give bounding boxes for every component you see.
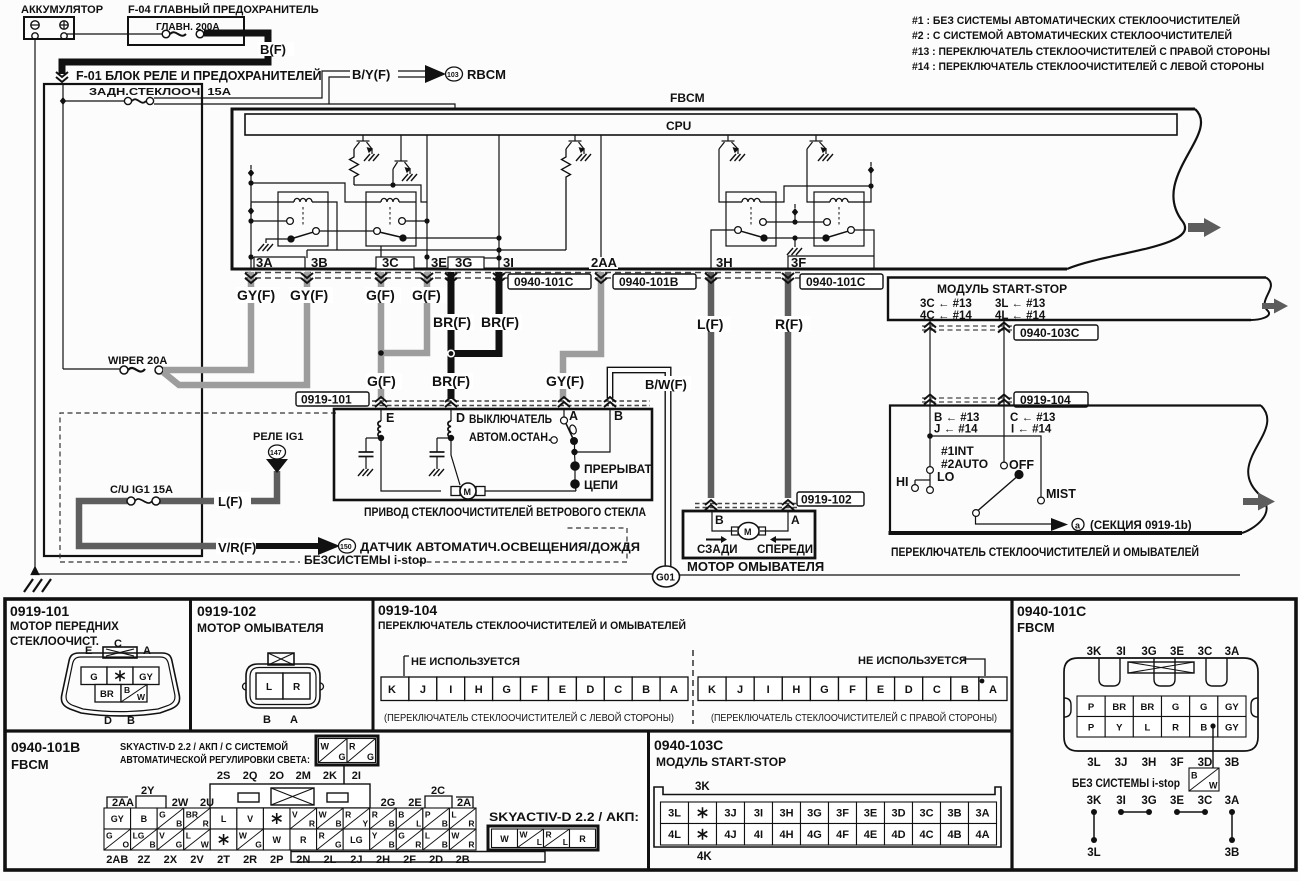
0940-101C grid row2 (1077, 717, 1246, 738)
wire B(F) thick battery feed (62, 33, 268, 74)
cell GY (133, 667, 159, 685)
wire coil1 feed (251, 201, 278, 203)
wire 3E vertical (424, 135, 429, 269)
fuse C/U IG1 15A (110, 484, 173, 505)
svg-text:MIST: MIST (1046, 487, 1076, 501)
ground bus line (34, 573, 653, 575)
wire K1 arm to K2 arm (320, 230, 374, 232)
svg-text:P: P (1088, 702, 1095, 713)
svg-text:3I: 3I (754, 807, 763, 819)
svg-text:4I: 4I (754, 829, 763, 841)
connector dashes below FBCM (245, 273, 800, 279)
wire 3G bridge (484, 257, 499, 259)
connector chevron (998, 395, 1010, 405)
svg-text:K: K (388, 684, 396, 696)
circuit breaker stack (571, 454, 579, 491)
pin D choke branch (430, 409, 454, 469)
svg-text:4G: 4G (807, 829, 822, 841)
svg-text:0919-101: 0919-101 (10, 603, 69, 619)
svg-text:W: W (321, 741, 330, 751)
connector chevrons into F-01 (56, 72, 68, 82)
svg-text:B: B (398, 809, 404, 819)
svg-text:A: A (670, 684, 678, 696)
svg-text:G: G (335, 840, 342, 850)
svg-text:2AA: 2AA (112, 797, 134, 809)
node 103 (446, 67, 463, 81)
svg-text:FBCM: FBCM (670, 91, 705, 105)
svg-text:SKYACTIV-D 2.2 / АКП / С СИСТЕ: SKYACTIV-D 2.2 / АКП / С СИСТЕМОЙ (120, 740, 288, 753)
svg-text:3J: 3J (1115, 757, 1128, 769)
node switch junction (927, 433, 933, 439)
svg-text:МОДУЛЬ START-STOP: МОДУЛЬ START-STOP (937, 282, 1067, 296)
svg-text:3C: 3C (382, 255, 399, 270)
svg-text:BR(F): BR(F) (433, 314, 471, 330)
svg-text:РЕЛЕ IG1: РЕЛЕ IG1 (253, 431, 304, 443)
svg-text:G: G (255, 840, 262, 850)
svg-text:ДАТЧИК АВТОМАТИЧ.ОСВЕЩЕНИЯ/ДОЖ: ДАТЧИК АВТОМАТИЧ.ОСВЕЩЕНИЯ/ДОЖДЯ (360, 540, 640, 554)
svg-text:LG: LG (350, 835, 363, 845)
svg-text:M: M (744, 527, 752, 537)
transistor Q3 (566, 135, 584, 154)
svg-text:V: V (247, 814, 253, 824)
svg-text:H: H (475, 684, 483, 696)
svg-text:2W: 2W (172, 797, 189, 809)
svg-text:B: B (176, 819, 182, 829)
svg-text:2AA: 2AA (591, 255, 618, 270)
wire thin feed to FBCM (329, 104, 455, 110)
svg-text:GY: GY (111, 814, 124, 824)
connector chevron (245, 273, 257, 283)
FBCM box outline (232, 109, 1201, 269)
right row A dot (980, 679, 985, 684)
svg-text:E: E (559, 684, 566, 696)
svg-text:3A: 3A (1225, 795, 1240, 807)
svg-text:ЗАДН.СТЕКЛООЧ. 15А: ЗАДН.СТЕКЛООЧ. 15А (89, 86, 232, 98)
svg-text:G: G (176, 840, 183, 850)
svg-text:B: B (1200, 722, 1207, 733)
0940-103C grid row1 (661, 802, 997, 824)
wire G(F) pin 3C (378, 272, 385, 399)
connector chevron (421, 273, 433, 283)
wire NC rail to ground (767, 235, 823, 247)
svg-text:3K: 3K (1087, 795, 1102, 807)
cell * (107, 667, 133, 685)
svg-text:B: B (389, 819, 395, 829)
connector box 0940-101C (508, 274, 591, 289)
label B(F) (258, 42, 294, 57)
transistor Q2 (393, 135, 410, 174)
FBCM 0940-101B grid row1 (104, 808, 476, 829)
label GY(F) 3B (289, 287, 333, 303)
connector dashes 0940-103C (922, 326, 1012, 330)
svg-text:G: G (159, 809, 166, 819)
CPU box (245, 114, 1177, 135)
svg-text:A: A (143, 645, 151, 657)
wire 3C stub (380, 246, 382, 258)
svg-text:B: B (263, 714, 271, 726)
svg-text:3I: 3I (503, 255, 514, 270)
node 150 (339, 539, 356, 553)
0940-103C grid row2 (661, 824, 997, 846)
svg-text:HI: HI (896, 475, 909, 489)
svg-text:W: W (137, 692, 146, 702)
svg-text:2M: 2M (296, 770, 311, 782)
svg-text:3D: 3D (1198, 757, 1213, 769)
svg-text:C: C (114, 638, 122, 650)
svg-text:R(F): R(F) (775, 316, 803, 332)
svg-text:R: R (309, 819, 315, 829)
battery BT (24, 17, 74, 39)
svg-text:0940-103C: 0940-103C (1020, 326, 1080, 340)
svg-text:3H: 3H (779, 807, 793, 819)
svg-text:3E: 3E (431, 255, 447, 270)
svg-text:M: M (464, 487, 472, 497)
svg-text:G(F): G(F) (367, 373, 396, 389)
arrow szadi (706, 536, 727, 543)
svg-text:B/W(F): B/W(F) (645, 377, 687, 392)
svg-text:4D: 4D (891, 829, 905, 841)
svg-text:W: W (520, 829, 529, 839)
svg-text:ВЫКЛЮЧАТЕЛЬ: ВЫКЛЮЧАТЕЛЬ (469, 412, 552, 426)
F-04 main fuse box (128, 17, 244, 45)
svg-text:GY(F): GY(F) (237, 287, 275, 303)
svg-text:L: L (1145, 722, 1151, 733)
svg-text:R: R (300, 835, 307, 845)
svg-text:ЦЕПИ: ЦЕПИ (584, 478, 618, 492)
left ne ispolzuetsya (401, 656, 520, 681)
0940-101C grid row1 (1077, 696, 1246, 717)
svg-text:LO: LO (937, 470, 955, 484)
label GY(F) 3A (236, 287, 280, 303)
label G(F) 3C (365, 287, 401, 303)
wire GY(F) pin 3B (163, 272, 307, 385)
svg-text:G(F): G(F) (366, 287, 395, 303)
svg-text:Y: Y (363, 819, 369, 829)
svg-text:L: L (563, 837, 568, 847)
svg-text:V: V (292, 809, 298, 819)
svg-text:#1INT: #1INT (941, 444, 974, 458)
svg-text:B: B (141, 814, 148, 824)
svg-text:B(F): B(F) (260, 42, 286, 57)
svg-text:G: G (1200, 702, 1207, 713)
wire battery negative down to ground bus (34, 39, 36, 574)
svg-text:3G: 3G (455, 255, 472, 270)
svg-text:147: 147 (270, 450, 282, 457)
svg-text:G(F): G(F) (412, 287, 441, 303)
label GY(F) low (545, 373, 589, 389)
label BR(F) low (431, 373, 473, 389)
wire coil2 feed (251, 183, 366, 202)
wire K3 pivot to pin 3H (711, 230, 735, 269)
wiper switch box (889, 406, 1268, 534)
motor M wiper (451, 483, 485, 499)
svg-text:E: E (386, 411, 394, 425)
wire K4 pivot to pin 3F (788, 230, 874, 269)
FBCM internal power node with bus (248, 165, 254, 269)
svg-text:R: R (546, 829, 552, 839)
svg-text:2Z: 2Z (137, 854, 150, 866)
node center common with diamond (767, 204, 824, 225)
svg-text:3G: 3G (807, 807, 822, 819)
svg-text:G: G (1172, 702, 1179, 713)
svg-text:3J: 3J (724, 807, 736, 819)
wire K2 NC to 3I line (406, 237, 499, 239)
connector box 0940-101B (613, 274, 696, 289)
pin E choke branch (359, 409, 384, 469)
relay K2 (366, 192, 416, 246)
svg-text:3E: 3E (864, 807, 877, 819)
svg-text:3C: 3C (1198, 795, 1213, 807)
node 147 (269, 445, 286, 459)
pin box 3C (376, 255, 414, 270)
pin tab 3A (254, 257, 305, 269)
connector box 0919-101 (296, 392, 369, 407)
svg-text:R: R (203, 819, 209, 829)
svg-text:FBCM: FBCM (11, 757, 49, 772)
svg-text:2C: 2C (431, 785, 445, 797)
wire K2 common to 3E line (406, 220, 428, 222)
link 3I-3G (1118, 809, 1152, 815)
switch contacts (912, 436, 1051, 524)
svg-text:2L: 2L (323, 854, 336, 866)
svg-text:2E: 2E (408, 797, 421, 809)
node coil tie with diamond (776, 162, 874, 202)
svg-text:4E: 4E (864, 829, 877, 841)
switch continuation arrow (1243, 493, 1275, 511)
svg-text:H: H (792, 684, 800, 696)
resistor R1 (350, 149, 359, 185)
svg-text:3K: 3K (695, 781, 710, 793)
svg-text:L: L (537, 837, 542, 847)
svg-text:2P: 2P (270, 854, 283, 866)
svg-text:2U: 2U (200, 797, 214, 809)
cell BR (95, 685, 121, 703)
wire D to motor (451, 438, 460, 485)
wire bottom rail to resistor R3 (307, 250, 566, 258)
cell R (283, 673, 310, 699)
connector chevron washer B (705, 500, 717, 510)
svg-text:4F: 4F (836, 829, 849, 841)
svg-text:3G: 3G (1141, 646, 1156, 658)
svg-text:R: R (468, 840, 474, 850)
F-01 relay and fuse box (44, 84, 202, 556)
relay K1 (278, 192, 328, 246)
svg-text:B: B (614, 409, 623, 423)
svg-text:3B: 3B (1225, 757, 1240, 769)
svg-text:P: P (1088, 722, 1095, 733)
label R(F) (774, 316, 810, 332)
svg-text:BR(F): BR(F) (432, 373, 470, 389)
svg-text:J ← #14: J ← #14 (934, 424, 978, 436)
svg-text:0940-101B: 0940-101B (11, 739, 80, 755)
label L(F) (696, 316, 730, 332)
svg-text:GY(F): GY(F) (290, 287, 328, 303)
wire K1 coil out to bottom rail (328, 202, 337, 250)
svg-text:150: 150 (340, 544, 352, 551)
svg-text:3L ← #13: 3L ← #13 (995, 298, 1045, 310)
svg-text:НЕ ИСПОЛЬЗУЕТСЯ: НЕ ИСПОЛЬЗУЕТСЯ (858, 655, 967, 667)
divider rows (5, 729, 1012, 732)
right ne ispolzuetsya (858, 655, 985, 681)
svg-text:D: D (104, 715, 112, 727)
svg-text:2S: 2S (217, 770, 230, 782)
svg-text:W: W (319, 809, 328, 819)
connector chevron (301, 273, 313, 283)
svg-text:2N: 2N (296, 854, 310, 866)
svg-text:BR: BR (186, 809, 198, 819)
wire common feed K1 (251, 220, 287, 222)
svg-text:F-04 ГЛАВНЫЙ ПРЕДОХРАНИТЕЛЬ: F-04 ГЛАВНЫЙ ПРЕДОХРАНИТЕЛЬ (128, 3, 319, 16)
svg-text:3C: 3C (919, 807, 933, 819)
connector chevron washer A (782, 500, 794, 510)
svg-text:0940-101B: 0940-101B (619, 275, 679, 289)
svg-text:2H: 2H (376, 854, 390, 866)
svg-text:B: B (124, 685, 130, 695)
svg-text:3F: 3F (791, 255, 806, 270)
connector body 0919-102 (243, 653, 324, 708)
svg-text:(ПЕРЕКЛЮЧАТЕЛЬ СТЕКЛООЧИСТИТЕЛ: (ПЕРЕКЛЮЧАТЕЛЬ СТЕКЛООЧИСТИТЕЛЕЙ С ПРАВО… (711, 711, 997, 724)
wire GY(F) pin 2AA (563, 272, 601, 399)
svg-text:2R: 2R (243, 854, 257, 866)
left pin row 0919-104 (381, 677, 688, 701)
wire GY(F) pin 3A (163, 272, 251, 370)
svg-text:МОТОР ОМЫВАТЕЛЯ: МОТОР ОМЫВАТЕЛЯ (687, 559, 824, 574)
svg-text:0940-101C: 0940-101C (1017, 603, 1086, 619)
link 3A-3B (1229, 809, 1235, 843)
svg-text:L: L (416, 819, 421, 829)
svg-text:P: P (425, 809, 431, 819)
connector chevron (705, 273, 717, 283)
label BR(F) 3I (480, 314, 522, 330)
wire Q5 collector to K4 coil (807, 149, 814, 202)
svg-text:B: B (127, 715, 135, 727)
svg-text:ПЕРЕКЛЮЧАТЕЛЬ СТЕКЛООЧИСТИТЕЛЕ: ПЕРЕКЛЮЧАТЕЛЬ СТЕКЛООЧИСТИТЕЛЕЙ И ОМЫВАТ… (378, 619, 686, 632)
svg-text:D: D (905, 684, 913, 696)
svg-text:3K: 3K (1087, 646, 1102, 658)
svg-text:OFF: OFF (1009, 458, 1034, 472)
node BR join ring (448, 350, 454, 356)
svg-text:МОТОР ПЕРЕДНИХ: МОТОР ПЕРЕДНИХ (10, 621, 119, 633)
connector chevron wiper drive (558, 397, 570, 407)
divider panel2/3 (372, 598, 375, 731)
svg-text:#2 : С СИСТЕМОЙ АВТОМАТИЧЕСКИХ: #2 : С СИСТЕМОЙ АВТОМАТИЧЕСКИХ СТЕКЛООЧИ… (912, 29, 1232, 42)
connector box 0919-104 (1014, 392, 1088, 407)
arrow to section a (1051, 518, 1068, 531)
svg-text:2B: 2B (456, 854, 470, 866)
svg-text:B: B (442, 819, 448, 829)
right pin row 0919-104 (698, 677, 1007, 701)
box W/G R/G (316, 736, 378, 765)
svg-text:G: G (367, 752, 374, 762)
wire L(F)/V-R(F) dark gray harness (79, 471, 318, 546)
svg-text:МОТОР ОМЫВАТЕЛЯ: МОТОР ОМЫВАТЕЛЯ (197, 621, 324, 635)
node a (1072, 519, 1084, 531)
wire 2AA vertical (600, 135, 602, 269)
svg-text:R: R (345, 809, 351, 819)
svg-text:3F: 3F (836, 807, 849, 819)
svg-text:B: B (1191, 770, 1198, 780)
auto-stop switch (551, 409, 610, 455)
svg-text:F: F (849, 684, 856, 696)
FBCM continuation arrow (1188, 218, 1221, 237)
FBCM 0940-101B grid row2 (104, 829, 476, 850)
svg-text:W: W (451, 830, 460, 840)
svg-text:BR: BR (100, 689, 114, 700)
svg-text:3B: 3B (947, 807, 961, 819)
resistor R3 (562, 149, 571, 250)
label V/R(F) (216, 538, 256, 555)
washer motor wiring (712, 511, 788, 531)
svg-text:2J: 2J (350, 854, 362, 866)
svg-text:3L: 3L (668, 807, 681, 819)
svg-text:J: J (737, 684, 743, 696)
wire grid to akp box (291, 850, 545, 862)
label L(F) (215, 492, 251, 509)
wire E to motor (381, 438, 441, 491)
svg-text:L: L (186, 830, 191, 840)
transistor Q1 (354, 135, 372, 154)
svg-text:R: R (579, 834, 586, 844)
svg-text:0919-102: 0919-102 (801, 493, 852, 507)
ground relay rail (787, 248, 802, 255)
svg-text:J: J (420, 684, 426, 696)
svg-text:АВТОМАТИЧЕСКОЙ РЕГУЛИРОВКИ СВЕ: АВТОМАТИЧЕСКОЙ РЕГУЛИРОВКИ СВЕТА: (120, 753, 310, 766)
svg-text:3C ← #13: 3C ← #13 (920, 298, 972, 310)
svg-text:W: W (239, 830, 248, 840)
connector chevron wiper drive (445, 397, 457, 407)
svg-text:WIPER 20A: WIPER 20A (108, 355, 167, 367)
motor M washer (732, 523, 766, 540)
svg-text:W: W (272, 835, 281, 845)
svg-text:3H: 3H (716, 255, 733, 270)
svg-text:R: R (468, 819, 474, 829)
ground K1 (258, 244, 273, 251)
wire battery to F-04 (67, 33, 128, 35)
svg-text:I ← #14: I ← #14 (1011, 424, 1052, 436)
svg-text:A: A (791, 513, 800, 527)
pin label 2AA (589, 255, 618, 270)
wire junction to MIST branch (930, 436, 1041, 497)
wire Q4 collector to K3 coil (719, 149, 726, 202)
svg-text:3I: 3I (1116, 795, 1126, 807)
svg-text:3A: 3A (975, 807, 989, 819)
svg-text:4J: 4J (724, 829, 736, 841)
wire BR(F) pin 3I (454, 272, 499, 354)
svg-text:СЗАДИ: СЗАДИ (697, 544, 738, 556)
svg-text:2T: 2T (217, 854, 230, 866)
svg-text:3L: 3L (1087, 757, 1100, 769)
svg-text:0940-103C: 0940-103C (654, 737, 723, 753)
connector chevron (924, 323, 936, 333)
svg-text:B: B (961, 684, 969, 696)
svg-text:B: B (389, 840, 395, 850)
svg-text:G: G (106, 830, 113, 840)
connector body 0940-101C (1064, 658, 1258, 751)
bottom section outer border (5, 599, 1296, 870)
divider panel right (1010, 598, 1013, 870)
svg-text:4B: 4B (947, 829, 961, 841)
svg-text:АВТОМ.ОСТАН.: АВТОМ.ОСТАН. (469, 430, 551, 444)
svg-text:C: C (614, 684, 622, 696)
svg-text:3H: 3H (1142, 757, 1157, 769)
svg-text:БЕЗ СИСТЕМЫ i-stop: БЕЗ СИСТЕМЫ i-stop (1072, 776, 1180, 790)
wire 3I vertical (496, 135, 501, 269)
transistor Q5 (807, 135, 826, 154)
grid label 2A (456, 797, 473, 809)
svg-text:GY: GY (139, 672, 153, 683)
ground G01 (653, 566, 680, 587)
svg-text:GY(F): GY(F) (546, 373, 584, 389)
